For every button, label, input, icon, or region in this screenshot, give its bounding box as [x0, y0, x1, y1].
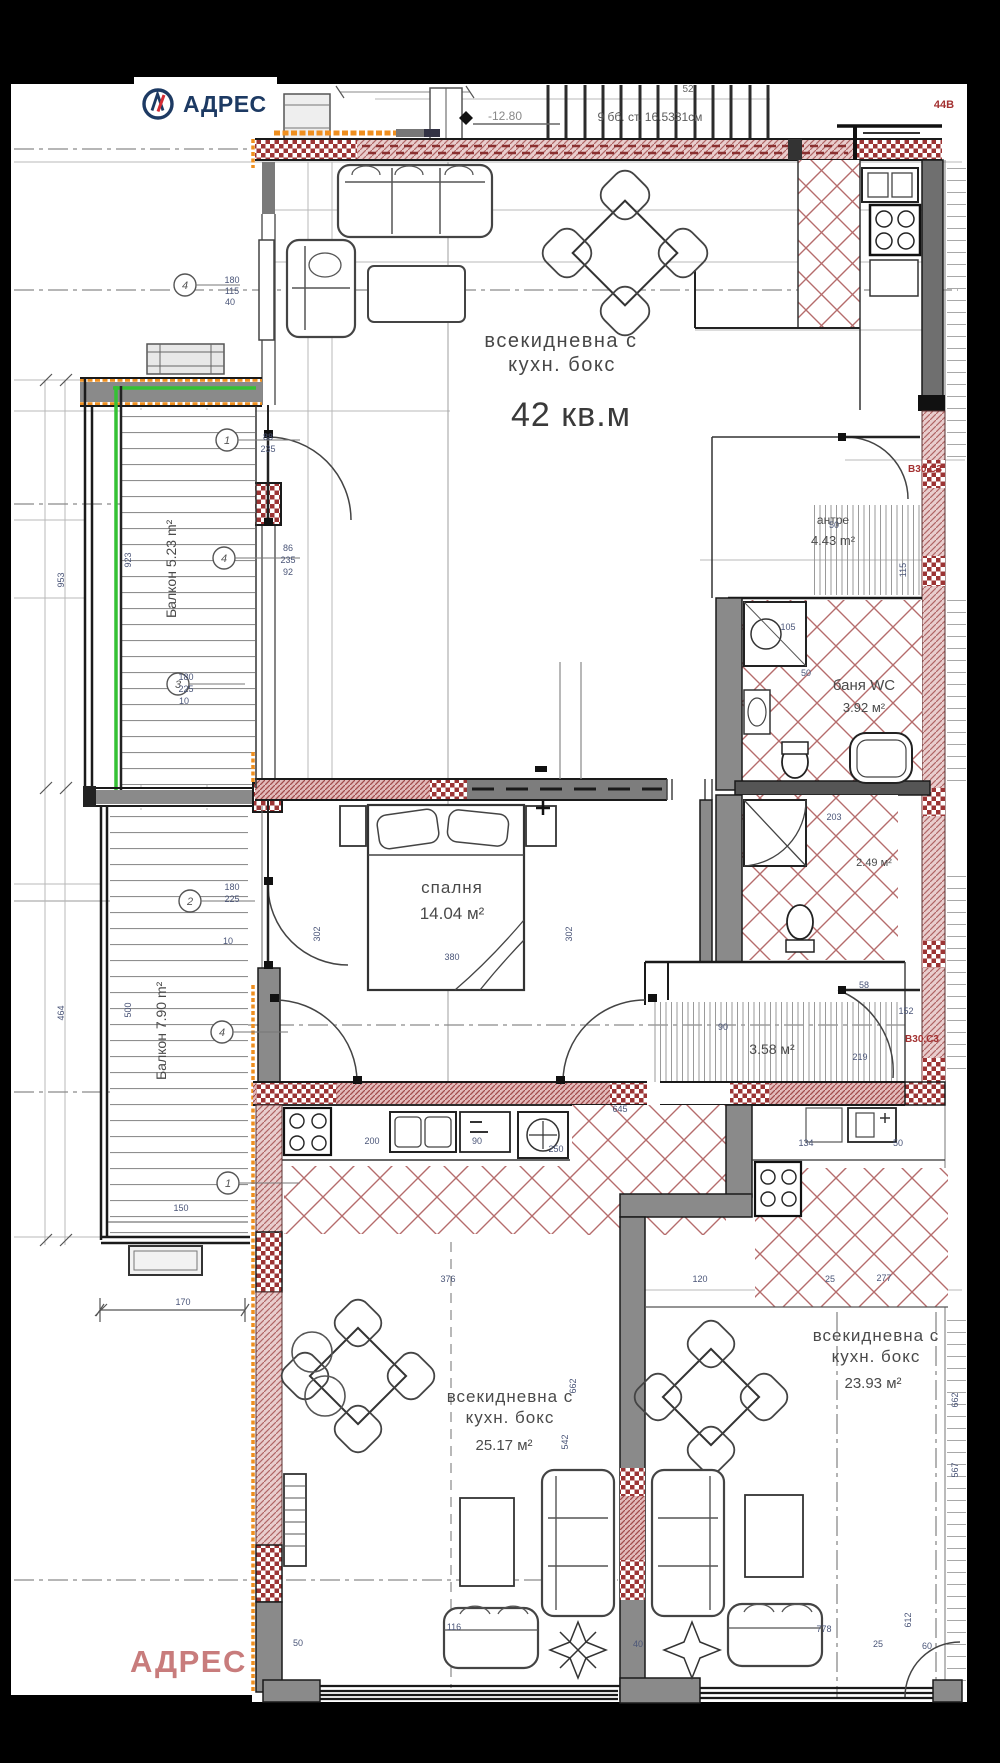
left exterior gray low [256, 1602, 282, 1692]
svg-text:40: 40 [225, 297, 235, 307]
kitchen zone left line [797, 160, 799, 328]
corridor right jamb line [904, 962, 906, 1082]
door living-balcony1 leaf [267, 437, 270, 520]
shaft line [445, 88, 447, 139]
right apt cabinet [806, 1108, 842, 1142]
svg-text:662: 662 [950, 1392, 960, 1407]
door bedroom-balcony2 [268, 885, 348, 965]
bottom wall gray block right [933, 1680, 962, 1702]
wire h living 3 [14, 410, 450, 412]
right wall checker seg 4 [922, 940, 945, 968]
hood cross [529, 1121, 557, 1149]
sink basin 1 [395, 1117, 421, 1147]
svg-text:152: 152 [898, 1006, 913, 1016]
wire h left 598 [14, 597, 85, 599]
hall top line [712, 436, 846, 438]
faucet mark [470, 1122, 488, 1132]
door jamb stubs [264, 430, 846, 1084]
node dot balcony2 [237, 1087, 248, 1098]
decor circles bottom-left [292, 1332, 332, 1372]
svg-text:235: 235 [260, 444, 275, 454]
balcony1 top wall gray [80, 382, 262, 402]
svg-text:всекидневна с: всекидневна с [484, 330, 637, 352]
svg-text:50: 50 [801, 668, 811, 678]
svg-text:Балкон 7.90 m²: Балкон 7.90 m² [153, 981, 169, 1080]
svg-text:116: 116 [447, 1622, 461, 1632]
sofa right apt vertical [652, 1470, 724, 1616]
kitchen zone bottom line [695, 327, 860, 329]
centerline top-left [14, 148, 250, 150]
dim ticks 170 [96, 1298, 249, 1322]
svg-text:4: 4 [221, 553, 227, 565]
entry door arc [846, 437, 908, 499]
left exterior checker low2 [256, 1545, 282, 1602]
svg-text:всекидневна с: всекидневна с [813, 1326, 940, 1345]
wire h kitchen bottom [695, 329, 940, 331]
bottom-right door arc [905, 1642, 960, 1697]
axis marker c1 [216, 429, 238, 451]
top wall checker seg left [255, 139, 357, 160]
svg-text:86: 86 [283, 543, 293, 553]
top wall dark blob [788, 139, 802, 160]
svg-text:180: 180 [224, 882, 239, 892]
corridor bottom wall checker2 [905, 1082, 945, 1105]
sofa top cushions [345, 168, 485, 234]
svg-text:92: 92 [283, 567, 293, 577]
level marker diamond [459, 111, 473, 125]
svg-text:60: 60 [922, 1641, 932, 1651]
top-right inner line [863, 132, 920, 134]
sofa left apt vertical [542, 1470, 614, 1616]
svg-text:баня WC: баня WC [833, 677, 895, 694]
svg-text:кухн. бокс: кухн. бокс [508, 354, 616, 376]
svg-text:662: 662 [568, 1378, 578, 1393]
sink basin 2 [425, 1117, 451, 1147]
corridor left jog [645, 962, 668, 1005]
svg-text:105: 105 [780, 622, 795, 632]
bedroom right wall [700, 800, 712, 962]
top wall orange insulation strip [274, 131, 396, 136]
mid wall slab dash line [472, 788, 662, 791]
node dot balcony1 [235, 500, 246, 511]
door bedroom-balcony2 leaf [267, 885, 270, 965]
party wall hatch b [620, 1496, 645, 1560]
dim line 150 [108, 1221, 248, 1223]
svg-text:спалня: спалня [421, 878, 483, 897]
svg-text:58: 58 [859, 980, 869, 990]
svg-text:180: 180 [178, 672, 193, 682]
svg-text:1: 1 [224, 435, 230, 447]
track tick [535, 766, 547, 772]
right apt sink cross [880, 1113, 890, 1123]
svg-text:50: 50 [893, 1138, 903, 1148]
wire h bottom apt 1 [620, 1289, 962, 1291]
kitchen counter edge [859, 160, 861, 410]
wire v dim rail 1 [44, 380, 46, 1245]
svg-text:645: 645 [612, 1104, 627, 1114]
wire v balcony1 inner2 [206, 408, 208, 788]
entry hall stripes [812, 505, 920, 595]
bath1 toilet [782, 746, 808, 778]
bath2 toilet tank [786, 940, 814, 952]
wire v living a [307, 162, 309, 779]
wire h living 2 [272, 261, 940, 263]
balcony1 top wall borders [80, 378, 262, 406]
mid wall hatch (living/bedroom) [255, 779, 430, 800]
balcony divider wall gray [85, 790, 255, 804]
svg-text:10: 10 [223, 936, 233, 946]
party wall checker c [620, 1560, 645, 1600]
svg-text:всекидневна с: всекидневна с [447, 1387, 574, 1406]
right wall black foot [918, 395, 945, 411]
centerline bedroom [240, 1024, 905, 1026]
svg-text:Балкон 5.23 m²: Балкон 5.23 m² [163, 519, 179, 618]
top wall main hatched band [255, 139, 942, 160]
neighbor strip lines 3 [947, 870, 966, 1080]
kitchen counter band left apt [255, 1105, 570, 1160]
svg-text:B30,C3: B30,C3 [908, 464, 942, 475]
party wall vertical bottom [620, 1217, 645, 1700]
svg-text:42 кв.м: 42 кв.м [511, 396, 631, 434]
logo ring [144, 90, 172, 118]
bedroom left wall inner line [261, 806, 263, 1082]
right apt stove [755, 1162, 801, 1216]
kitchen X hatch zone [798, 160, 860, 328]
wire h right 560 [700, 559, 922, 561]
bath1 top wall [728, 597, 922, 600]
svg-text:25: 25 [825, 1274, 835, 1284]
top wall borders [255, 139, 942, 160]
balcony2 bottom edge [101, 1237, 250, 1243]
bedroom bottom wall hatch [253, 1082, 610, 1105]
plant star center [664, 1622, 720, 1678]
svg-text:225: 225 [178, 684, 193, 694]
svg-text:120: 120 [692, 1274, 707, 1284]
top-right black post [853, 126, 857, 160]
right apt stove burners [761, 1170, 775, 1184]
corridor bottom wall hatch [730, 1082, 905, 1105]
bath1 bottom wall [735, 781, 930, 795]
bedroom bottom wall checker left [256, 1082, 336, 1105]
svg-text:302: 302 [564, 926, 574, 941]
balcony1 deck stripes [122, 410, 255, 785]
bottom wall gray block mid [620, 1678, 700, 1703]
svg-text:4: 4 [219, 1027, 225, 1039]
bedroom left wall line [267, 800, 269, 1082]
svg-text:464: 464 [56, 1005, 66, 1020]
dashed axis bottom-left apt [450, 1242, 452, 1688]
bath1 toilet tank [782, 742, 808, 754]
coffee table right apt [745, 1495, 803, 1577]
AC unit above balcony1 [147, 344, 224, 374]
wire h stairs [375, 98, 770, 100]
wire h balcony top ext [14, 379, 80, 381]
armchair right apt [728, 1604, 822, 1666]
left wall lines [262, 214, 275, 405]
sofa left pillow [309, 253, 341, 277]
svg-text:9 бб. ст. 16.5331см: 9 бб. ст. 16.5331см [598, 110, 703, 124]
party wall checker a [620, 1468, 645, 1496]
svg-text:40: 40 [633, 1639, 643, 1649]
svg-text:2.49 м²: 2.49 м² [856, 857, 892, 869]
corridor entry door2 leaf [838, 989, 920, 992]
left wall orange stub top [251, 139, 255, 168]
svg-text:3.92 м²: 3.92 м² [843, 700, 886, 715]
svg-text:4: 4 [182, 280, 188, 292]
sofa top back pillows [352, 166, 473, 175]
bed head line [368, 854, 524, 856]
TV cabinet left apt [460, 1498, 514, 1586]
mid wall gray slab [467, 779, 667, 800]
mid wall borders [255, 779, 667, 800]
wire h left 884 [14, 883, 100, 885]
balcony2 exterior wall gray [258, 968, 280, 1082]
svg-text:203: 203 [826, 812, 841, 822]
svg-text:115: 115 [898, 563, 908, 577]
stove left apt [284, 1108, 331, 1155]
top wall gray seg [396, 129, 432, 137]
axis marker c4 [179, 890, 201, 912]
corridor entry door2 arc [838, 990, 893, 1078]
svg-text:923: 923 [123, 552, 133, 567]
svg-text:542: 542 [560, 1434, 570, 1449]
sofa left (living) [287, 240, 355, 337]
axis leader lines [189, 285, 300, 1183]
radiator lines [284, 1486, 306, 1546]
sliding door track lines [560, 662, 581, 779]
svg-text:88: 88 [263, 432, 273, 442]
party wall vertical right of 3.58 [726, 1105, 752, 1197]
svg-text:-12.80: -12.80 [488, 109, 522, 123]
svg-text:52: 52 [682, 84, 694, 95]
balcony1 top wall orange top [80, 378, 262, 382]
kitchen drawer unit [870, 260, 918, 296]
centerline v right apt b [935, 1312, 937, 1698]
wire v axis living/bedroom [447, 162, 449, 1082]
balcony1 top wall orange bottom [80, 402, 262, 406]
bed blanket fold [455, 920, 524, 990]
stair bars top [548, 85, 768, 139]
balcony2 deck stripes [110, 810, 248, 1235]
balcony1 right wall line [255, 406, 257, 788]
balcony1 left edge [85, 378, 92, 795]
right apt counter lines [752, 1159, 945, 1161]
left exterior hatch low2 [256, 1292, 282, 1545]
bath1 sink [744, 690, 770, 734]
balcony divider end block [83, 786, 96, 807]
centerline living [14, 289, 958, 291]
centerline balcony2 [14, 1091, 236, 1093]
X hatch bottom right apt [755, 1168, 948, 1307]
axis marker c7 [174, 274, 196, 296]
bath2 basin arc [744, 800, 806, 866]
svg-text:1: 1 [225, 1178, 231, 1190]
balcony divider checker pier [253, 783, 282, 812]
shower circle [751, 619, 781, 649]
dining chairs living [537, 165, 712, 340]
bedroom bottom wall checker mid [610, 1082, 647, 1105]
pier checkered living left [250, 483, 281, 525]
double sink left apt [390, 1112, 456, 1152]
wire v balcony2 inner [140, 808, 142, 1235]
svg-text:14.04 м²: 14.04 м² [420, 904, 485, 923]
svg-text:200: 200 [364, 1136, 379, 1146]
wire h living 1 [272, 209, 940, 211]
nightstand right [526, 806, 556, 846]
corridor top wall line [645, 961, 905, 964]
svg-text:250: 250 [548, 1144, 563, 1154]
nightstand left [340, 806, 366, 846]
svg-text:778: 778 [816, 1624, 831, 1634]
centerline balcony1 [14, 503, 236, 505]
bed pillow 1 [376, 808, 440, 850]
svg-text:612: 612 [903, 1612, 913, 1627]
neighbor strip lines 1 [947, 165, 966, 460]
balcony1 black vertical [120, 386, 123, 793]
svg-text:10: 10 [179, 696, 189, 706]
svg-text:115: 115 [225, 286, 239, 296]
logo white box [134, 77, 277, 130]
balcony2 left edge [101, 806, 107, 1240]
hood circle [527, 1119, 559, 1151]
wire h balcony mid [14, 900, 255, 902]
bed [368, 805, 524, 990]
sofa left apt cushions [548, 1476, 608, 1610]
top wall red dash row 1 [362, 145, 848, 148]
neighbor strip lines 2 [947, 600, 966, 790]
svg-text:500: 500 [123, 1002, 133, 1017]
door bedroom left arc [275, 1000, 357, 1082]
svg-text:219: 219 [852, 1052, 867, 1062]
wire h balcony2 bottom ext [14, 1236, 100, 1238]
svg-text:90: 90 [472, 1136, 482, 1146]
AC unit lines [147, 344, 224, 374]
wire h left 520 [14, 519, 85, 521]
balcony1 green vertical [114, 386, 118, 793]
sofa left cushions [292, 246, 350, 330]
balcony1 top wall green line [113, 386, 256, 390]
door bedroom right arc [563, 1000, 645, 1082]
svg-text:567: 567 [950, 1462, 960, 1477]
orange strip bedroom left [251, 985, 255, 1692]
bath1 tub inner [857, 740, 906, 777]
kitchen sink unit [862, 168, 918, 202]
right wall checker seg 5 [922, 1058, 945, 1086]
right wall checker seg 1 [922, 460, 945, 488]
armchair left apt [444, 1608, 538, 1668]
wire v balcony2 inner2 [206, 808, 208, 1235]
kitchen stove unit [870, 205, 920, 255]
svg-text:277: 277 [876, 1273, 891, 1283]
top wall dark seg [424, 129, 440, 137]
svg-text:170: 170 [175, 1297, 190, 1307]
shower diagonal [744, 602, 806, 666]
stove burners left apt [290, 1114, 304, 1128]
logo A navy [152, 94, 163, 111]
planter box [129, 1246, 202, 1275]
bath1 sink bowl [748, 698, 766, 726]
svg-text:225: 225 [224, 894, 239, 904]
mid wall opening frames [667, 779, 712, 800]
svg-text:АДРЕС: АДРЕС [183, 91, 267, 117]
svg-text:302: 302 [312, 926, 322, 941]
wire v right edge line [944, 160, 946, 1700]
party wall horizontal bar [620, 1194, 752, 1217]
entry door leaf [846, 436, 920, 439]
bedroom bottom wall borders [253, 1082, 647, 1105]
sofa top (living) [338, 165, 492, 237]
track cross [536, 801, 550, 815]
bath2 toilet [787, 905, 813, 939]
wire v living b [331, 162, 333, 779]
X hatch left small [284, 1166, 310, 1234]
svg-text:кухн. бокс: кухн. бокс [832, 1347, 921, 1366]
bottom window wall left apt [265, 1686, 620, 1699]
wire h right 460 [845, 459, 965, 461]
left wall line to door [267, 405, 269, 437]
top-right black lintel [837, 124, 942, 128]
door living-balcony1 [268, 437, 351, 520]
left wall orange stub bottom [251, 752, 255, 782]
wire h dim top [340, 91, 470, 93]
svg-text:90: 90 [718, 1022, 728, 1032]
svg-text:25: 25 [873, 1639, 883, 1649]
living left wall lower lines [262, 525, 275, 779]
shaft box top [430, 88, 462, 139]
corridor bottom wall borders [660, 1082, 905, 1105]
svg-text:4.43 m²: 4.43 m² [811, 533, 856, 548]
wire v balcony1 inner [140, 408, 142, 788]
table bottom-right apt [663, 1349, 759, 1445]
right wall hatch column [922, 411, 945, 1090]
wire h corridor [645, 961, 905, 963]
chairs bottom-right apt [630, 1316, 793, 1479]
dim ticks rails [40, 374, 107, 1316]
axis marker c5 [211, 1021, 233, 1043]
centerline bottom-left [14, 1579, 618, 1581]
coffee table living [368, 266, 465, 322]
armchair right apt cushion [728, 1604, 822, 1628]
svg-text:150: 150 [173, 1203, 188, 1213]
hall left wall line [711, 437, 713, 598]
balcony divider borders [85, 788, 255, 806]
left exterior checker low1 [256, 1232, 282, 1292]
bath2 left wall [716, 795, 742, 962]
dim line 170 with arrows [100, 1309, 245, 1311]
black band bottom-left [0, 1695, 252, 1763]
corridor floor stripes [650, 1002, 900, 1082]
kitchen sink basins [868, 173, 888, 197]
table bottom-left apt [310, 1328, 406, 1424]
kitchen zone divider line [694, 270, 696, 328]
small ticks top dim [336, 86, 474, 98]
svg-text:235: 235 [280, 555, 295, 565]
shower cabin [744, 602, 806, 666]
right wall checker seg 3 [922, 788, 945, 816]
machine box top-left [284, 94, 330, 139]
svg-text:B30,C3: B30,C3 [905, 1034, 939, 1045]
svg-text:50: 50 [829, 520, 839, 530]
right apt sink basin [856, 1113, 874, 1137]
logo slash red [158, 95, 164, 112]
bath1 left wall [716, 598, 742, 790]
bath2 washbasin [744, 800, 806, 866]
chairs bottom-left apt [277, 1295, 440, 1458]
plant star left apt [550, 1622, 606, 1678]
kitchen stove burners [876, 211, 892, 227]
X hatch bottom line [645, 1306, 948, 1308]
svg-text:3.58 м²: 3.58 м² [749, 1041, 795, 1057]
